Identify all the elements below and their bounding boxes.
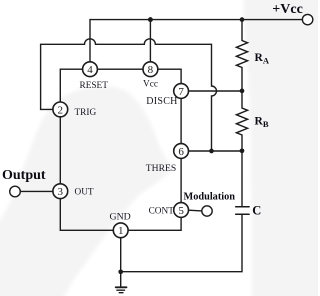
svg-text:A: A [263,56,270,66]
svg-text:THRES: THRES [146,163,176,174]
svg-text:TRIG: TRIG [75,108,97,118]
svg-text:C: C [252,203,261,217]
svg-text:4: 4 [87,64,93,76]
svg-text:Output: Output [2,168,46,183]
svg-text:+Vcc: +Vcc [272,2,303,17]
svg-text:DISCH: DISCH [146,96,178,107]
svg-text:CONT: CONT [149,206,175,216]
svg-text:OUT: OUT [75,188,94,198]
svg-text:1: 1 [118,225,124,237]
svg-text:Vcc: Vcc [143,80,158,90]
svg-text:6: 6 [178,146,184,158]
svg-text:8: 8 [148,64,154,76]
svg-text:Modulation: Modulation [184,191,236,202]
svg-text:5: 5 [178,205,184,217]
svg-text:GND: GND [110,212,131,223]
svg-text:3: 3 [58,186,64,198]
svg-text:7: 7 [178,86,184,98]
svg-text:RESET: RESET [80,81,109,91]
svg-text:B: B [263,119,269,129]
svg-text:2: 2 [58,104,64,116]
